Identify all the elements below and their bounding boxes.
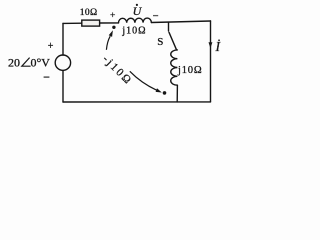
current arrow I head — [209, 42, 213, 48]
wire coil to top-right corner — [151, 21, 210, 23]
wire top-left segment — [63, 22, 82, 24]
resistor R 10Ω box — [82, 20, 100, 26]
svg-text:j10Ω: j10Ω — [121, 26, 146, 37]
voltage source V1 circle 20∠0°V — [55, 55, 70, 70]
dot above U — [136, 4, 138, 6]
mutual arrow lower tail — [130, 71, 157, 90]
wire resistor to coil — [100, 22, 119, 24]
svg-text:j10Ω: j10Ω — [177, 65, 202, 76]
svg-text:+: + — [48, 41, 54, 52]
svg-text:S: S — [157, 36, 163, 48]
coupling dot right coil — [163, 91, 167, 95]
switch S blade — [169, 32, 176, 49]
mutual arrow lower head — [156, 88, 162, 92]
svg-text:+: + — [110, 11, 115, 21]
inductor L2 j10Ω right coil — [171, 50, 178, 85]
wire bottom — [63, 101, 211, 103]
svg-text:0°V: 0°V — [31, 55, 51, 69]
wire left side lower — [62, 70, 64, 102]
inductor L1 j10Ω top coil — [118, 18, 151, 23]
coupling dot top coil — [112, 26, 115, 29]
wire right side — [210, 21, 212, 102]
svg-text:20: 20 — [8, 55, 20, 69]
mutual arrow upper shaft — [106, 36, 110, 50]
label − of U — [153, 15, 158, 17]
wire left side upper — [62, 23, 64, 55]
switch S stub — [168, 22, 170, 31]
wire coil bottom to bottom wire — [176, 85, 178, 102]
angle symbol of 20∠0°V — [22, 58, 31, 67]
mutual arrow upper head — [109, 30, 113, 37]
svg-text:U: U — [133, 4, 143, 18]
svg-text:10Ω: 10Ω — [80, 7, 98, 18]
source minus sign — [44, 76, 50, 78]
